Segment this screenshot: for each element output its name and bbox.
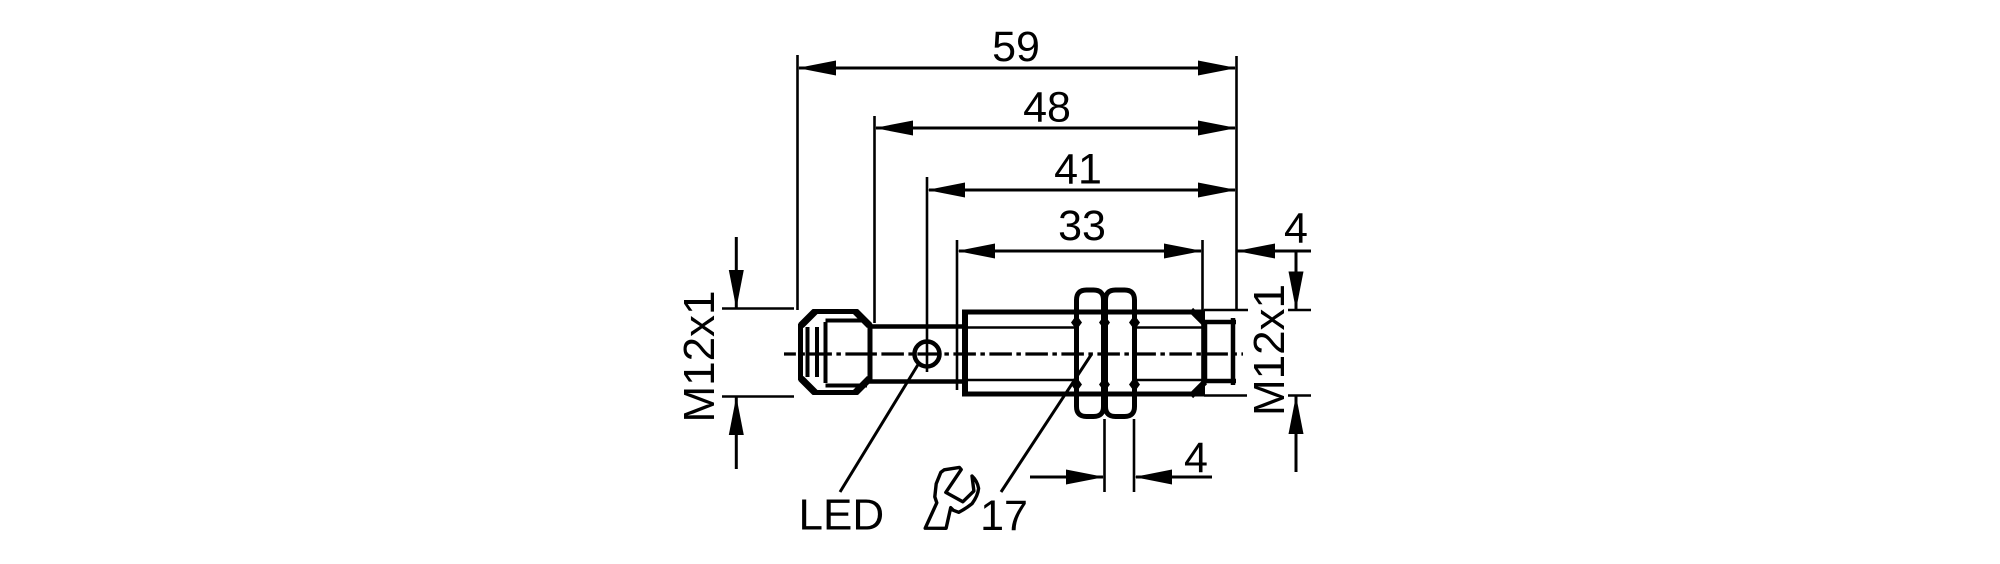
wrench icon: [925, 467, 978, 528]
wrench size 17 leader line: [1001, 355, 1091, 492]
dimension 41 extension line: [926, 177, 929, 372]
connector nut inner vertical lines: [808, 322, 826, 383]
dimension 59 extension line left: [796, 55, 799, 310]
dimension 33 extension line left: [956, 240, 959, 390]
LED leader line: [840, 363, 919, 492]
right M12x1 dimension line top with arrow: [1295, 253, 1298, 310]
svg-text:59: 59: [992, 23, 1040, 71]
barrel right chamfer bottom: [1191, 382, 1205, 397]
hex locknut 1: [1077, 290, 1104, 417]
svg-text:4: 4: [1184, 434, 1208, 482]
left M12x1 dimension tick bottom: [722, 395, 794, 398]
svg-text:LED: LED: [799, 491, 885, 540]
dimension 48 line: [876, 127, 1235, 130]
dimension 48 extension line: [873, 116, 876, 323]
dimension 33 extension line right: [1201, 240, 1204, 390]
dimension 4 bottom left arrow: [1030, 476, 1103, 479]
dimension 33 line: [959, 250, 1201, 253]
LED indicator circle: [915, 342, 940, 367]
barrel right chamfer top: [1191, 310, 1205, 325]
dimension 4 bottom extension line left: [1103, 419, 1106, 492]
dimension 41 line: [929, 189, 1235, 192]
connector nut octagon (left end): [801, 312, 871, 393]
connector nut corner chamfer wedges: [801, 312, 870, 393]
left M12x1 dimension line bottom with arrow: [735, 397, 738, 469]
svg-text:41: 41: [1054, 146, 1102, 194]
sensing tip: [1205, 318, 1236, 385]
threaded barrel thread minor lines: [965, 326, 1202, 329]
sensor body: rear housing section: [868, 327, 965, 382]
threaded barrel outer edges (drawn over nuts): [962, 310, 1204, 315]
svg-text:4: 4: [1284, 205, 1308, 253]
svg-text:48: 48: [1023, 84, 1071, 132]
centerline (dash-dot): [784, 352, 1243, 355]
dimension 4 top right line: [1237, 250, 1312, 253]
step from rear housing to barrel: [962, 310, 968, 396]
svg-text:17: 17: [980, 492, 1028, 540]
right M12x1 dimension line bottom with arrow: [1295, 396, 1298, 472]
dimension right face extension line: [1235, 56, 1238, 310]
svg-text:33: 33: [1058, 202, 1106, 250]
dimension 4 bottom extension line right: [1133, 419, 1136, 492]
right M12x1 dimension tick top: [1204, 309, 1248, 312]
dimension 59 line: [799, 67, 1235, 70]
left M12x1 dimension tick top: [722, 307, 794, 310]
hex locknut 2: [1106, 290, 1135, 417]
hex nut chamfer diamonds: [1071, 315, 1140, 392]
left M12x1 dimension line top with arrow: [735, 237, 738, 308]
right M12x1 dimension tick bottom: [1204, 394, 1247, 397]
svg-text:M12x1: M12x1: [675, 290, 724, 422]
dimension 4 bottom right arrow: [1136, 476, 1212, 479]
connector nut chamfer horizontal lines: [826, 321, 868, 386]
svg-text:M12x1: M12x1: [1245, 284, 1294, 416]
